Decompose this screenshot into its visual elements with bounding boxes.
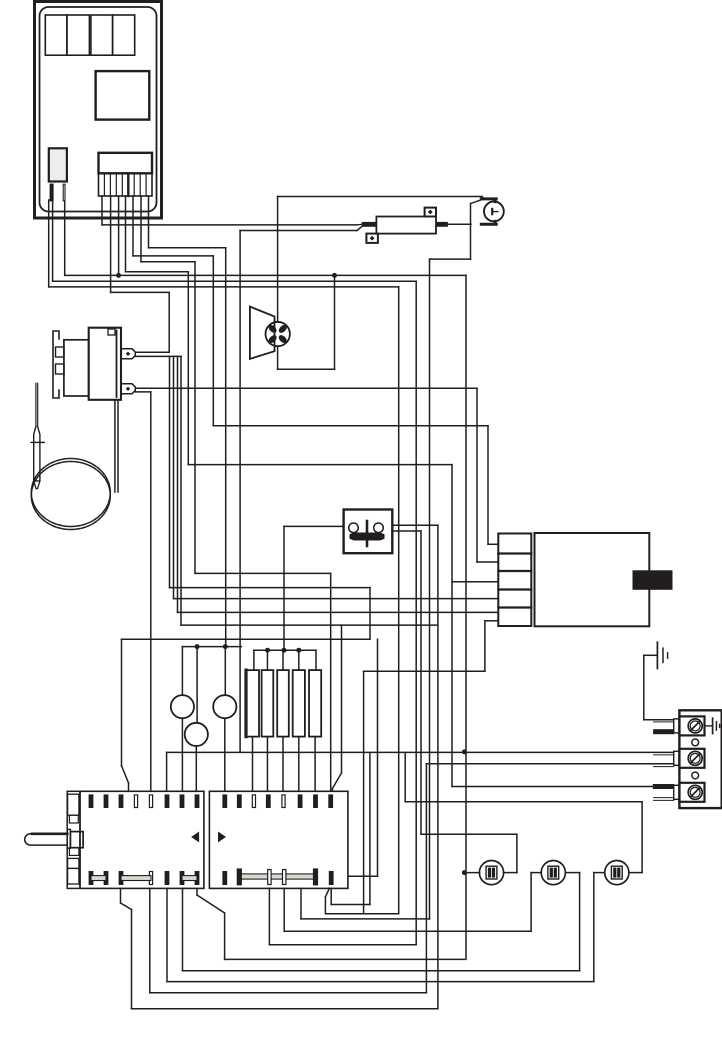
wire sensor top line to fan xyxy=(278,196,482,198)
X1 top pin 2 xyxy=(104,795,108,808)
arrow mark on X2 xyxy=(219,833,226,842)
wire cable line4 from T1 joining gas valve coil return xyxy=(180,356,182,625)
X1 top pin 8 xyxy=(195,795,199,808)
X1 test lever / plug xyxy=(25,834,68,845)
lamp bus xyxy=(182,646,241,648)
junction dot resistor tap 2 xyxy=(282,648,287,653)
X2 bottom pin 3 xyxy=(268,870,271,885)
motor module K1 body xyxy=(535,533,650,626)
earth ground symbol (chassis) xyxy=(643,655,645,720)
wire bus y931: X2 pin to motor M3 left xyxy=(284,930,531,932)
thermostat terminal 2 xyxy=(121,384,135,394)
wire bus y959: X1 pin8 to wire A xyxy=(225,958,465,960)
X3 screw2 prongs xyxy=(654,754,674,756)
wire W2: J1 pin2 to thermostat terminal 1 xyxy=(110,196,112,292)
X3 small circle 1 xyxy=(692,739,699,746)
X1 bottom pin 1 xyxy=(89,872,93,885)
connector J1 header on board xyxy=(99,153,153,174)
gas valve coil 1 xyxy=(349,523,359,533)
spark generator top screw terminal xyxy=(425,208,436,217)
X1 bottom pin 3 xyxy=(119,872,123,885)
wire screw2 lower to bottom bus xyxy=(425,764,427,993)
wire thermostat T1 leads xyxy=(135,351,169,353)
wire M3 right lead xyxy=(565,872,579,874)
fan motor M1 (propeller symbol) xyxy=(266,322,290,346)
X2 top pin 1 xyxy=(223,795,227,808)
X2 bottom pin 6 xyxy=(329,872,333,885)
wire cell5 loop to strip right side xyxy=(484,621,486,671)
lamp L3 xyxy=(196,647,198,723)
display window segment 2 xyxy=(67,15,90,55)
display window segment 4 xyxy=(113,15,135,55)
IC chip on board xyxy=(96,71,150,120)
temperature sensor B1 xyxy=(484,202,504,222)
wire M4 left lead xyxy=(594,872,605,874)
X2 top pin 3 xyxy=(252,795,255,808)
X3 screw3 lower prong xyxy=(654,797,674,799)
wire bus y918: X2 pin to sensor wire xyxy=(301,918,430,920)
junction dot lamp L2 feed xyxy=(223,644,228,649)
wire bus y1009: X1 pin3 to gas valve output A xyxy=(132,1008,438,1010)
motor M4 (pump) xyxy=(605,861,629,885)
X2 top pin 8 xyxy=(329,795,333,808)
lamp L2 xyxy=(224,647,226,696)
wire cable line2 from T1 to gas valve cell4 xyxy=(173,356,175,598)
spark generator right lead xyxy=(436,222,447,226)
wire B: J2 to bottom bus xyxy=(52,200,54,281)
wire thermostat T2 to gas valve cell2 xyxy=(135,387,477,389)
junction dot resistor tap 1 xyxy=(265,648,270,653)
gas valve coil 2 xyxy=(374,523,384,533)
junction dot line A / fan return xyxy=(332,273,337,278)
wire W6: J1 pin6 down to strip X2 pin 8 xyxy=(140,196,142,262)
X1 bottom pin 2 xyxy=(104,872,108,885)
wire W1: J1 pin1 to spark generator xyxy=(101,196,103,225)
wire fan return loop xyxy=(277,346,279,369)
X3 screw terminal 3 (L) xyxy=(679,783,704,802)
X1 jumper comb 2 xyxy=(121,876,151,881)
X3 earth symbol xyxy=(705,725,713,727)
resistor R1 xyxy=(244,670,247,737)
wire cable line1 from T1 (to lower zigzag) xyxy=(169,356,171,587)
thermostat capillary tube down xyxy=(114,400,116,492)
wire gas valve input from resistor bus xyxy=(284,525,344,527)
X2 top pin 6 xyxy=(298,795,302,808)
wire A: J2 to line A feeding fan/lamp/motors xyxy=(64,202,66,275)
wire bus y913: X2 pin to wire C xyxy=(326,913,399,915)
wire branch from line4 run to strip X2 pin 8 xyxy=(341,625,343,773)
X1 bottom pin 6 xyxy=(165,872,169,885)
X1 bottom pin 5 xyxy=(149,872,152,885)
gas valve armature bar xyxy=(366,521,369,546)
X1 top pin 5 xyxy=(149,795,152,808)
wire C: J2 to strip pin via right side xyxy=(48,200,50,287)
display window segment 1 xyxy=(45,15,67,55)
X1 bottom pin 8 xyxy=(195,872,199,885)
thermostat probe needle xyxy=(35,383,37,426)
spark generator bottom screw terminal xyxy=(366,234,378,243)
wire M3 left lead xyxy=(531,872,541,874)
wire W4: J1 pin4 to gas valve cell3 and mains terminal screw3 xyxy=(125,196,127,272)
X2 bottom pin 4 xyxy=(283,870,286,885)
wire sensor down lead xyxy=(470,204,472,260)
X2 bottom pin 2 xyxy=(237,869,241,885)
X2 top pin 7 xyxy=(314,795,318,808)
X3 screw1 thick prong xyxy=(654,730,674,734)
wire resistor mid tap up to gas valve input xyxy=(283,526,285,650)
wire branch from y639 run to strip X2 right side xyxy=(377,639,379,876)
junction dot wireA / motor M2 lead xyxy=(462,870,467,875)
X3 screw3 thick prong xyxy=(653,785,673,789)
terminal strip X1 side connector xyxy=(67,791,80,888)
terminal block X3 body xyxy=(679,710,721,808)
X2 bottom pin 1 xyxy=(223,872,227,885)
control board U1 outer frame xyxy=(35,2,162,219)
thermostat body left block xyxy=(64,340,89,396)
resistor bank top bus xyxy=(254,649,316,651)
X2 top pin 2 xyxy=(237,795,241,808)
connector J1 pin housing xyxy=(99,173,153,196)
sensor clamp bracket xyxy=(481,197,496,200)
thermostat terminal 1 xyxy=(121,349,135,359)
junction dot W3/line A xyxy=(116,273,121,278)
X1 top pin 6 xyxy=(165,795,169,808)
X2 bottom pin 5 xyxy=(313,869,317,885)
junction dot lamp L3 feed xyxy=(195,644,200,649)
wire bus y944: X2 pin to wire B xyxy=(269,944,416,946)
wire bus y904: X2 pin to riser xyxy=(331,904,370,906)
connector J2 (small, grey) on board xyxy=(49,148,67,181)
resistor R2 xyxy=(262,670,274,737)
X2 top pin 4 xyxy=(266,795,270,808)
wire spark generator second feed from lamp-bus wire xyxy=(240,230,357,232)
wire M2 left lead xyxy=(464,872,479,874)
wire M2 right lead to gas valve output B xyxy=(504,872,517,874)
junction dot live bus / wireA xyxy=(462,749,467,754)
wire M4 right lead xyxy=(629,872,642,874)
X3 small circle 2 xyxy=(692,772,699,779)
wire gas valve output A to bottom bus xyxy=(392,524,438,526)
thermostat mounting bracket xyxy=(53,331,59,398)
wire spark generator output to sensor clamp xyxy=(447,223,471,225)
lamp L1 xyxy=(181,647,183,696)
motor module connector (5 cells) xyxy=(498,534,531,627)
junction dot resistor tap 3 xyxy=(296,648,301,653)
thermostat capillary coil xyxy=(31,459,110,527)
gas valve operator Y1 box xyxy=(344,510,393,554)
X1 top pin 3 xyxy=(119,795,123,808)
wire bus y996: X1 pin5 to X3 screw2 riser xyxy=(150,992,427,994)
arrow mark on X1 xyxy=(192,833,199,842)
terminal strip X2 body xyxy=(209,791,348,888)
wire W3: J1 pin3 to node on line A xyxy=(118,196,120,275)
X3 screw terminal 2 (N) xyxy=(679,749,704,768)
thermostat body main block xyxy=(89,328,121,400)
X3 screw1 thin prong + earth wire xyxy=(644,719,674,721)
X1 top pin 1 xyxy=(89,795,93,808)
X1 jumper comb 1 xyxy=(91,876,106,881)
motor M2 (pump) xyxy=(479,861,503,885)
resistor R4 xyxy=(293,670,305,737)
wire W7: J1 pin7 to lamp bus xyxy=(148,196,150,248)
X3 screw terminal 1 (earth) xyxy=(679,716,704,735)
wire gas valve output B to motor1 right xyxy=(392,530,421,532)
wire W5: J1 pin5 to gas valve cell1 xyxy=(132,196,134,256)
wire live bus to X3 screw2 xyxy=(167,751,674,753)
fan intake funnel xyxy=(250,307,275,359)
resistor R5 xyxy=(309,670,321,737)
X2 jumper comb xyxy=(239,874,315,879)
wire bus y982: X1 pin6 to motor M4 left xyxy=(167,981,594,983)
resistor R3 xyxy=(277,670,289,737)
spark generator A1 body xyxy=(376,217,436,234)
X2 top pin 5 xyxy=(282,795,285,808)
wire bus y970: X1 pin7 to motor M3 right xyxy=(183,970,580,972)
X1 bottom pin 7 xyxy=(180,872,184,885)
connector J2 pin 2 (white prong) xyxy=(63,184,65,201)
control board inner rounded outline xyxy=(40,7,157,212)
motor M3 (pump) xyxy=(541,861,565,885)
terminal strip X1 body xyxy=(80,791,204,888)
wire cable line3 from T1 to gas valve cell5 xyxy=(177,356,179,612)
wire thermostat T2 second lead to left strip xyxy=(135,391,151,393)
thermostat top small detail xyxy=(108,329,115,335)
display window segment 3 xyxy=(91,15,113,55)
motor module black tab xyxy=(633,571,672,590)
X1 top pin 4 xyxy=(134,795,137,808)
wire X2 riser joining live bus xyxy=(369,752,371,904)
wire fan supply from sensor line xyxy=(277,197,279,322)
X1 top pin 7 xyxy=(180,795,184,808)
X1 jumper comb 3 xyxy=(182,876,197,881)
spark generator left lead xyxy=(362,222,376,226)
wire spark-generator drop to terminal-bus xyxy=(239,231,241,752)
connector J2 pin 1 (black prong) xyxy=(50,184,53,201)
wire riser to motor M4 right lead line xyxy=(404,752,406,801)
